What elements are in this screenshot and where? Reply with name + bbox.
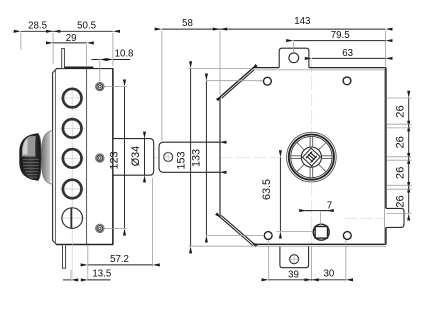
left view dim texts [28,20,142,279]
svg-text:29: 29 [66,33,77,44]
spokes [291,137,332,178]
svg-text:57.2: 57.2 [110,254,129,265]
svg-text:26: 26 [395,195,407,207]
dim 7 [304,210,331,212]
housing edge arrows at body [207,141,219,143]
dim 10.8 [92,59,100,61]
svg-text:30: 30 [324,269,335,280]
svg-text:63: 63 [342,48,353,59]
dims 26 x4 right side [408,98,410,124]
svg-text:13.5: 13.5 [92,269,111,280]
body right edge [384,68,386,245]
svg-text:26: 26 [395,105,407,117]
faceplate inner edge line [54,69,56,244]
faceplate screw top [96,82,104,90]
dim 13.5 [63,279,71,281]
svg-text:26: 26 [395,167,407,179]
dim 79.5 [293,40,385,42]
body top edge [253,67,280,69]
bolt bar side view [114,139,154,176]
dim 29 [53,42,87,44]
body left edge [219,97,221,217]
side latch bolt [386,208,404,227]
vertical centerline [311,59,313,132]
deadbolt hole 2 [63,119,82,138]
svg-text:7: 7 [327,200,332,211]
corner screw bottom-right [343,232,351,240]
deadbolt hole crosshairs [59,86,86,279]
dim 28.5 [21,30,53,32]
svg-text:143: 143 [294,16,310,27]
centerline horizontal through lock axis [100,156,287,158]
dim 63 [312,57,385,59]
thumbturn knob 3D [20,131,53,184]
top-left chamfer (double with arrows) [220,68,253,97]
dim 123 [124,87,126,229]
cylinder housing side view [159,142,220,172]
svg-text:153: 153 [175,151,187,169]
dim 57.2 [88,264,153,266]
dim 153 [190,68,192,246]
dim 63.5 [279,157,281,231]
svg-text:58: 58 [182,18,193,29]
body bottom edge [253,243,385,245]
corner screw top-right [343,77,351,85]
body right edge (heavy) [112,69,114,245]
svg-text:26: 26 [395,136,407,148]
right view dim texts [175,16,406,280]
svg-text:133: 133 [191,149,203,167]
latch centerline [345,217,410,219]
corner screw bottom-left [264,232,272,240]
keyway [302,148,320,166]
lock body side plate [53,69,113,245]
deadbolt hole 4 [63,180,82,199]
svg-text:50.5: 50.5 [77,20,96,31]
backplate edge line [86,69,88,245]
dim 50.5 [53,30,113,32]
bottom edge heavy [56,244,113,246]
deadbolt hole 1 [63,89,82,108]
dim 133 [205,81,207,236]
dim 30 [312,279,346,281]
faceplate screw middle [96,154,104,162]
faceplate screw bottom [96,224,104,232]
lower hole with slot [62,208,83,229]
svg-text:10.8: 10.8 [115,48,134,59]
corner screw top-left [264,77,272,85]
top edge thick boss [65,66,94,68]
dim diameter 34 [144,139,146,175]
svg-text:39: 39 [288,269,299,280]
svg-text:123: 123 [109,151,121,169]
deadbolt hole 3 [63,149,82,168]
square spindle hole [313,224,329,240]
svg-text:28.5: 28.5 [28,20,47,31]
bottom spindle pin [63,245,66,269]
bottom mounting tab [280,246,309,267]
top pin [62,49,65,69]
svg-text:Ø34: Ø34 [130,146,142,166]
pump cylinder [287,132,337,182]
svg-text:63.5: 63.5 [261,179,273,200]
svg-text:79.5: 79.5 [331,30,350,41]
dim 143 [220,28,385,30]
bottom-left chamfer (double with arrows) [219,217,252,246]
top mounting tab [279,48,309,67]
dim 58 [162,28,220,30]
housing screw [164,153,173,162]
dim 39 [269,279,312,281]
